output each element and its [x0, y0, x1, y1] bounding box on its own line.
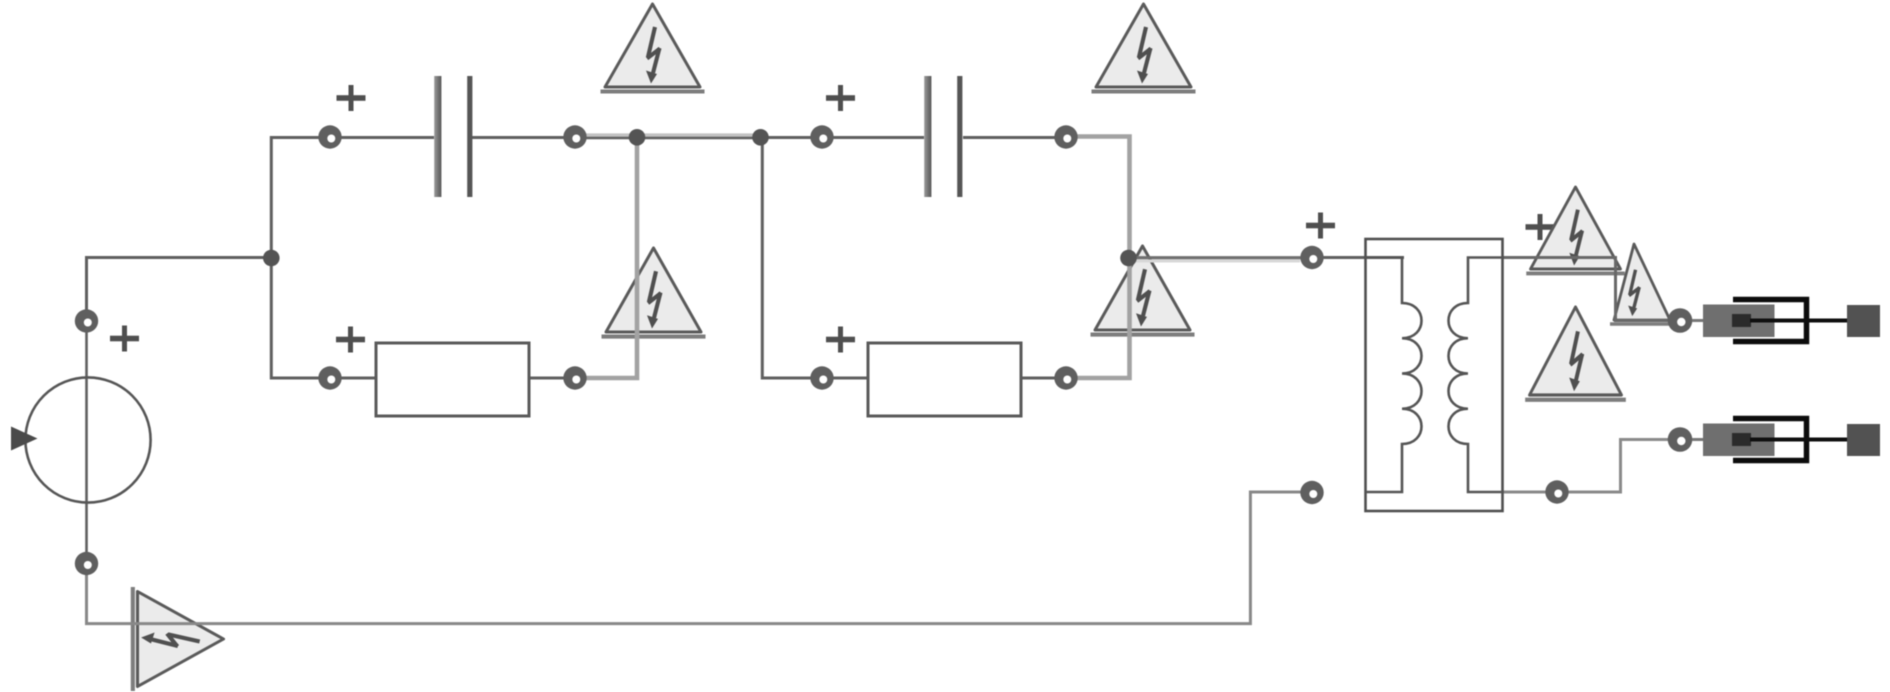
capacitor C1 left plate — [434, 76, 441, 197]
plus of transformer primary — [1306, 213, 1335, 239]
transformer T1 primary winding — [1366, 258, 1422, 493]
plus of capacitor C2 — [826, 85, 855, 111]
wire: light gray riser node B (637) joining C1/R1 outputs — [586, 138, 637, 378]
terminal: R1 - — [563, 366, 586, 389]
terminal: source V1 + — [75, 309, 98, 332]
terminal: transformer primary - — [1300, 481, 1323, 504]
wire: R2 right lead — [1021, 377, 1055, 380]
warning symbol W2 (above capacitor C2) — [1092, 4, 1196, 94]
warning symbol W4 (on node between C2/R2 and transformer) — [1091, 246, 1195, 337]
wire: node D to transformer primary + terminal (light shade) — [1135, 260, 1300, 263]
terminal: transformer primary + — [1300, 246, 1323, 269]
terminal: C1 - — [563, 125, 586, 148]
output plug P1 (positive) — [1668, 300, 1880, 342]
wire: light gray net from C1 output along top rail to node C (762,137) — [578, 133, 762, 137]
plus of resistor R1 — [336, 327, 365, 353]
wire: R1 right lead — [529, 377, 564, 380]
wire: left branch vertical with top/bottom rails of stage 1 — [271, 138, 330, 379]
terminal: source V1 - — [75, 552, 98, 575]
capacitor C2 left plate — [924, 76, 931, 197]
warning symbol W5 (right of transformer, top) — [1526, 187, 1624, 275]
warning symbol W1 (above capacitor C1) — [601, 4, 705, 94]
warning symbol W8 (rotated, bottom left on return wire) — [131, 587, 224, 691]
node A junction dot (271,258) — [263, 250, 280, 267]
terminal: R2 + — [810, 366, 833, 389]
plus of source V1 — [110, 326, 139, 352]
plus of capacitor C1 — [337, 85, 366, 111]
terminal: R1 + — [318, 366, 341, 389]
wire: R2 left lead — [833, 377, 868, 380]
wire: dark overlay top rail from C1 output donut to node C — [578, 137, 762, 140]
plus of resistor R2 — [826, 327, 855, 353]
capacitor C2 right plate — [957, 76, 962, 197]
plus of output (partly hidden behind warning triangle W5) — [1526, 214, 1555, 240]
wire: bottom return from source to transformer primary - terminal — [87, 492, 1303, 624]
wire: source vertical through symbol (86,321)-(86,563) — [85, 321, 88, 563]
node C junction dot (760,137) — [752, 129, 769, 146]
output plug P2 (negative) — [1668, 419, 1880, 461]
source V1 arrow — [11, 427, 38, 451]
terminal: R2 - — [1054, 366, 1077, 389]
wire: stage 2 left vertical with rails — [762, 138, 822, 379]
wire: node D to transformer primary + terminal — [1130, 256, 1303, 259]
wire: C1 left lead — [341, 136, 434, 139]
warning symbol W6 (small, at output plus terminal) — [1610, 244, 1674, 326]
node D junction dot (1129,258) — [1120, 250, 1137, 267]
wire: secondary bottom exit to lower output — [1502, 440, 1669, 493]
resistor R2 — [868, 343, 1021, 416]
transformer T1 secondary winding — [1449, 258, 1503, 493]
terminal: transformer secondary - — [1545, 480, 1568, 503]
capacitor C1 right plate — [467, 76, 472, 197]
source V1 circle — [25, 377, 150, 502]
warning symbol W3 (on node between C1/R1 and C2/R2) — [602, 248, 706, 339]
wire: R1 left lead — [341, 377, 376, 380]
transformer T1 core box — [1366, 239, 1503, 511]
resistor R1 — [376, 343, 529, 416]
wire: C2 right lead — [963, 136, 1055, 139]
wire: C2 left lead — [833, 136, 924, 139]
terminal: C2 + — [810, 125, 833, 148]
node B junction dot (637,137) — [629, 129, 646, 146]
wire: primary + terminal into transformer — [1323, 256, 1404, 259]
wire: C1 right lead — [472, 136, 564, 139]
wire: source top lead (86,257)-(86,321) and feed to node A (271,257) — [87, 258, 272, 311]
wire: secondary top exit to output plus node — [1502, 258, 1670, 321]
terminal: C1 + — [318, 125, 341, 148]
wire: light gray riser node D (1129) joining C2/R2 outputs — [1077, 137, 1130, 379]
warning symbol W7 (right of transformer, lower) — [1525, 307, 1626, 402]
terminal: C2 - — [1054, 125, 1077, 148]
